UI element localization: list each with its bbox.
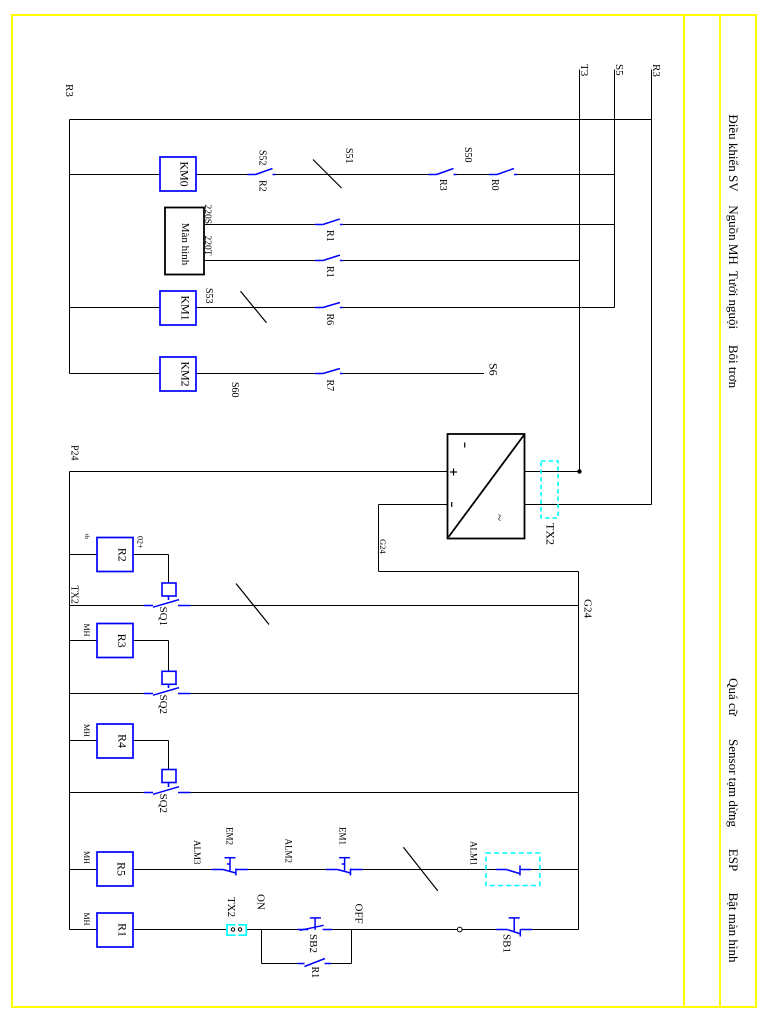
svg-text:R1: R1 bbox=[309, 967, 320, 979]
contact SQ1 (blue) bbox=[144, 600, 191, 608]
contact S52/R2 bbox=[248, 169, 276, 175]
junction: open circle on R1 rung bbox=[457, 927, 462, 932]
svg-text:ESP: ESP bbox=[726, 849, 741, 871]
contact R1 (220S) bbox=[315, 219, 343, 225]
svg-text:KM2: KM2 bbox=[179, 361, 193, 386]
junction dot T3/U1 bbox=[577, 469, 581, 473]
relay coil R5 bbox=[97, 852, 133, 886]
contactor coil KM2 bbox=[160, 357, 196, 391]
svg-text:SB2: SB2 bbox=[307, 934, 319, 953]
svg-text:02+: 02+ bbox=[136, 536, 145, 549]
contact SQ2a (blue) bbox=[144, 688, 191, 696]
svg-text:MH: MH bbox=[82, 851, 91, 864]
svg-text:S60: S60 bbox=[229, 382, 240, 398]
relay coil R3 bbox=[97, 624, 133, 658]
svg-text:Nguồn MH: Nguồn MH bbox=[726, 205, 741, 265]
wire: R1 holding bypass branch bbox=[262, 930, 352, 964]
svg-text:220S: 220S bbox=[202, 205, 212, 225]
svg-text:~: ~ bbox=[493, 514, 508, 521]
pin label minus (bottom) bbox=[451, 502, 453, 507]
pin label plus bbox=[450, 469, 457, 476]
switch crossing stroke (R5 rung) bbox=[403, 847, 437, 891]
contact R1 (holding) bbox=[298, 959, 332, 967]
svg-text:TX2: TX2 bbox=[225, 897, 237, 917]
wire: P24 supply line from U1 plus bbox=[70, 471, 448, 473]
relay coil R4 bbox=[97, 724, 133, 758]
svg-text:R1: R1 bbox=[324, 230, 335, 242]
svg-text:R2: R2 bbox=[257, 180, 268, 192]
svg-text:R3: R3 bbox=[115, 634, 129, 648]
svg-text:R1: R1 bbox=[116, 923, 130, 937]
wire: G24 return from U1 minus bbox=[379, 505, 579, 572]
contactor coil KM0 bbox=[160, 157, 196, 191]
svg-text:ALM2: ALM2 bbox=[284, 839, 294, 864]
svg-text:Bật màn hình: Bật màn hình bbox=[726, 892, 741, 963]
switch crossing stroke (SQ1 rung) bbox=[236, 584, 269, 625]
contact R7 bbox=[315, 369, 343, 374]
wire: SQ2a rung black segments bbox=[70, 693, 579, 695]
display unit Man hinh bbox=[165, 208, 204, 275]
pushbutton SB2 (NO) bbox=[298, 918, 333, 930]
svg-text:Quá cữ: Quá cữ bbox=[726, 678, 741, 717]
svg-text:S6: S6 bbox=[487, 363, 501, 376]
svg-text:S51: S51 bbox=[343, 148, 354, 164]
svg-text:P24: P24 bbox=[69, 445, 80, 461]
svg-text:SQ2: SQ2 bbox=[157, 794, 169, 814]
contact SQ2b (blue) bbox=[144, 787, 191, 795]
svg-text:220T: 220T bbox=[202, 236, 212, 256]
pin label minus (top) bbox=[464, 443, 466, 448]
svg-text:Tưới nguội: Tưới nguội bbox=[726, 271, 741, 330]
svg-text:SB1: SB1 bbox=[501, 934, 513, 953]
pushbutton SB1 (NC stop) bbox=[496, 918, 532, 937]
svg-text:R3: R3 bbox=[437, 179, 448, 191]
svg-text:R7: R7 bbox=[324, 380, 335, 392]
svg-text:G24: G24 bbox=[378, 539, 388, 554]
wire: P24 left rail (lower ladder) bbox=[69, 472, 71, 930]
wire: R1 rung black segments bbox=[70, 929, 579, 931]
wire: KM2 rung segments bbox=[70, 373, 485, 375]
svg-text:KM0: KM0 bbox=[178, 161, 192, 186]
svg-text:R0: R0 bbox=[489, 179, 500, 191]
svg-text:ON: ON bbox=[255, 894, 267, 910]
svg-text:MH: MH bbox=[82, 913, 91, 926]
wire: KM1 rung segments bbox=[70, 307, 615, 309]
wire: SQ2b rung black segments bbox=[70, 792, 579, 794]
contact R1 (220T) bbox=[315, 255, 343, 260]
wire: R3 bus vertical bbox=[651, 70, 653, 505]
relay coil R1 bbox=[97, 913, 133, 947]
svg-text:R6: R6 bbox=[324, 314, 335, 326]
wire: R4 coil rung bbox=[70, 741, 169, 770]
contact R6 bbox=[315, 303, 343, 308]
pushbutton EM2 (NC estop) bbox=[211, 858, 248, 876]
wire: R5 rung black segments bbox=[70, 869, 579, 871]
svg-text:MH: MH bbox=[82, 724, 91, 737]
terminal TX2 (dashed, on R1 rung) bbox=[227, 925, 246, 935]
wire: U1 right lower to R3 bbox=[525, 504, 652, 506]
svg-text:Sensor tạm dừng: Sensor tạm dừng bbox=[726, 739, 741, 827]
wire: R2 coil rung bbox=[70, 555, 169, 584]
wire: 220T rung bbox=[204, 260, 580, 262]
contact R0 bbox=[489, 169, 517, 175]
svg-text:KM1: KM1 bbox=[179, 295, 193, 320]
wire: R3 coil rung bbox=[70, 641, 169, 672]
wire: top rail R3 bbox=[70, 119, 652, 121]
switch S53 (crossing stroke) bbox=[241, 291, 267, 322]
svg-text:R5: R5 bbox=[115, 862, 129, 876]
limit switch SQ2b (actuator box) bbox=[162, 770, 176, 788]
svg-text:Màn hình: Màn hình bbox=[179, 223, 191, 266]
terminal box ALM1 (dashed) bbox=[486, 853, 540, 886]
wire: 220S rung bbox=[204, 224, 615, 226]
relay coil R2 bbox=[97, 538, 133, 572]
wire: S5 bus vertical bbox=[614, 70, 616, 308]
svg-text:S50: S50 bbox=[462, 147, 473, 163]
limit switch SQ1 (actuator box) bbox=[162, 583, 176, 600]
relay contact ALM1 (in dashed box) bbox=[496, 866, 531, 876]
svg-text:ALM3: ALM3 bbox=[192, 840, 202, 865]
svg-text:SQ2: SQ2 bbox=[157, 695, 169, 715]
svg-text:MH: MH bbox=[82, 624, 91, 637]
wire: KM0 rung segments bbox=[70, 174, 615, 176]
svg-text:EM2: EM2 bbox=[225, 827, 235, 845]
svg-text:ALM1: ALM1 bbox=[469, 841, 479, 866]
wire: left rail (top ladder common) bbox=[69, 120, 71, 374]
svg-text:SQ1: SQ1 bbox=[157, 607, 169, 627]
svg-text:tb: tb bbox=[83, 534, 90, 539]
wire: T3 bus vertical bbox=[579, 70, 581, 472]
svg-text:S53: S53 bbox=[203, 288, 214, 304]
limit switch SQ2a (actuator box) bbox=[162, 671, 176, 688]
pushbutton EM1 (NC estop) bbox=[326, 858, 363, 876]
switch S51 (crossing stroke) bbox=[313, 160, 342, 189]
svg-text:R1: R1 bbox=[324, 266, 335, 278]
svg-text:TX2: TX2 bbox=[69, 586, 80, 604]
svg-text:Bôi trơn: Bôi trơn bbox=[726, 345, 741, 389]
svg-text:R2: R2 bbox=[115, 548, 129, 562]
wire: U1 right upper to T3 bbox=[525, 471, 580, 473]
svg-text:OFF: OFF bbox=[353, 904, 365, 924]
svg-text:TX2: TX2 bbox=[544, 523, 558, 545]
svg-text:S52: S52 bbox=[257, 150, 268, 166]
svg-text:EM1: EM1 bbox=[338, 827, 348, 845]
contact R3 bbox=[429, 169, 457, 175]
wire: SQ1 rung black segments bbox=[70, 605, 579, 607]
svg-text:R4: R4 bbox=[116, 734, 130, 748]
power supply U1 (AC-DC converter) bbox=[448, 434, 525, 539]
svg-text:Điều khiển SV: Điều khiển SV bbox=[726, 114, 741, 192]
terminal TX2 (dashed, at U1) bbox=[541, 461, 558, 518]
svg-text:G24: G24 bbox=[582, 599, 594, 618]
wire: G24 right rail (lower ladder) bbox=[578, 572, 580, 930]
contactor coil KM1 bbox=[160, 291, 196, 325]
svg-text:R3: R3 bbox=[63, 84, 75, 97]
